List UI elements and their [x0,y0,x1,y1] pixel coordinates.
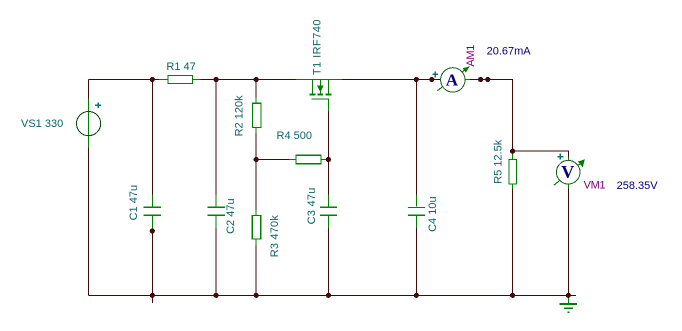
resistor R2 [252,98,261,133]
svg-text:C4 10u: C4 10u [427,196,439,231]
wire left rail [88,80,90,296]
value 258.35V [617,180,659,192]
label VS1 330 [21,118,63,130]
resistor R3 [252,210,261,245]
node gate-R4 junction [326,157,331,162]
ground [560,295,577,312]
label R1 47 [166,61,195,73]
wire R5 column [512,151,514,295]
wire top rail left [89,79,297,81]
svg-text:R5 12.5k: R5 12.5k [493,139,505,184]
wire R2-R3 column [255,80,257,296]
label AM1 [465,45,477,67]
wire C1 column [151,80,153,304]
node AM1 left [429,77,434,82]
voltage source VS1 [77,99,102,148]
label VM1 [584,180,606,192]
svg-text:VM1: VM1 [584,180,606,192]
wire VM1 bottom [567,188,569,295]
svg-text:A: A [446,70,459,89]
node rail C4 [414,293,419,298]
label C1 47u [128,185,140,220]
ammeter AM1 [432,66,470,92]
transistor T1 MOSFET [296,80,342,112]
node rail R5 [510,293,515,298]
svg-text:V: V [561,162,574,182]
label R5 12.5k [493,139,505,184]
label T1 IRF740 [311,19,323,75]
svg-text:R4 500: R4 500 [277,130,312,142]
label R2 120k [233,95,245,136]
label R3 470k [269,215,281,258]
svg-text:T1 IRF740: T1 IRF740 [311,19,323,75]
svg-text:R1 47: R1 47 [166,61,195,73]
wire C4 column [415,80,417,296]
node rail C1 [150,293,155,298]
node C2 top [214,77,219,82]
label C3 47u [306,187,318,224]
svg-text:AM1: AM1 [465,45,477,67]
capacitor C4 [408,195,425,228]
svg-text:C2 47u: C2 47u [225,198,237,233]
svg-text:20.67mA: 20.67mA [487,45,532,57]
resistor R1 [159,75,201,83]
resistor R5 [509,152,517,189]
svg-text:C3 47u: C3 47u [306,187,318,224]
node ground [566,293,571,298]
wire top rail right [342,80,513,152]
node AM1 right a [478,77,483,82]
wire R4 row [256,159,328,161]
node AM1 right b [485,77,490,82]
wire C2 column [215,80,217,296]
node rail R3 [254,293,259,298]
wire gate-C3 column [327,108,329,295]
node C4 top [414,77,419,82]
voltmeter VM1 [554,154,585,189]
svg-text:C1 47u: C1 47u [128,185,140,220]
wire R5 to VM1 [513,151,569,158]
capacitor C2 [208,195,225,228]
svg-text:VS1 330: VS1 330 [21,118,63,130]
node R2 top [254,77,259,82]
svg-text:R2 120k: R2 120k [233,95,245,136]
label C2 47u [225,198,237,233]
wire bottom rail [89,294,577,296]
svg-text:258.35V: 258.35V [617,180,659,192]
capacitor C1 [144,195,161,230]
value 20.67mA [487,45,532,57]
label R4 500 [277,130,312,142]
node R2-R4 junction [254,157,259,162]
node C1 top [150,77,155,82]
node R5 top junction [510,149,515,154]
svg-text:R3 470k: R3 470k [269,215,281,258]
node C1 bottom [150,228,155,233]
resistor R4 [289,155,327,164]
node rail C2 [214,293,219,298]
node rail C3 [326,293,331,298]
capacitor C3 [320,195,337,228]
label C4 10u [427,196,439,231]
